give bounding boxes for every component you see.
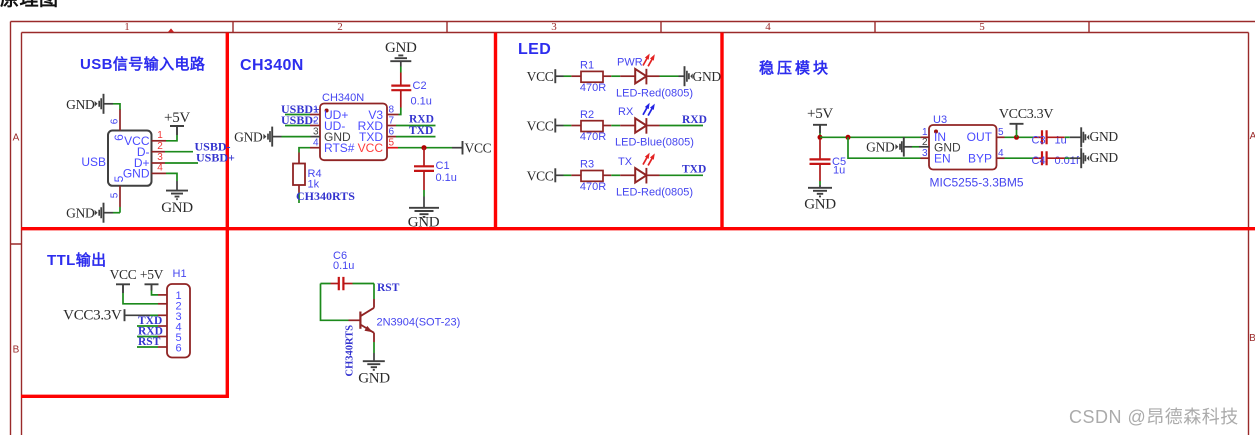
svg-text:GND: GND <box>66 206 95 221</box>
junction (C5/+5V) <box>818 135 823 140</box>
svg-text:CH340RTS: CH340RTS <box>345 325 356 377</box>
resistor R2 470R <box>580 109 611 143</box>
svg-text:5: 5 <box>110 192 121 198</box>
svg-text:TTL输出: TTL输出 <box>47 251 107 269</box>
svg-text:USBD-: USBD- <box>281 113 317 127</box>
svg-text:CH340N: CH340N <box>322 92 364 104</box>
wire: C6 right to RST node and collector <box>353 284 375 300</box>
svg-text:A: A <box>1250 131 1255 142</box>
svg-text:3: 3 <box>551 21 557 33</box>
wire: pin1 to +5V <box>166 135 177 141</box>
svg-text:2N3904(SOT-23): 2N3904(SOT-23) <box>377 317 461 329</box>
pin 4 RTS# <box>310 138 320 149</box>
resistor R4 <box>293 153 322 193</box>
svg-text:B: B <box>13 345 20 356</box>
svg-text:470R: 470R <box>580 131 606 143</box>
svg-text:BYP: BYP <box>968 151 992 165</box>
svg-text:CSDN @昂德森科技: CSDN @昂德森科技 <box>1069 407 1239 427</box>
ground symbol (below C1) <box>408 208 440 231</box>
svg-text:RST: RST <box>138 336 161 348</box>
svg-text:VCC: VCC <box>465 140 492 155</box>
wire: top GND flag to USB pin 6 <box>113 104 120 110</box>
H1 pin 6 <box>158 343 182 355</box>
ground symbol (below C5) <box>804 188 836 213</box>
svg-text:0.1u: 0.1u <box>333 260 354 272</box>
svg-text:GND: GND <box>358 371 390 387</box>
net label TXD <box>409 125 433 137</box>
regulator U3 MIC5255-3.3BM5 <box>929 114 1024 190</box>
LED2 LED-Blue(0805) RX <box>615 103 694 149</box>
svg-text:GND: GND <box>234 129 263 144</box>
pin 7 RXD <box>387 116 396 127</box>
USB pin 6 (top stub) <box>110 110 126 141</box>
net label USBD+ <box>196 151 235 165</box>
ground flag GND (left of CH340N) <box>234 127 281 147</box>
wire: TXD net stub to pin 4 <box>137 325 158 327</box>
svg-text:0.1u: 0.1u <box>436 172 457 184</box>
LED3 LED-Red(0805) TX <box>616 153 693 199</box>
svg-text:0.01f: 0.01f <box>1055 155 1080 167</box>
wire: +5V to H1 pin 1 <box>152 291 159 295</box>
svg-text:CH340N: CH340N <box>240 57 304 74</box>
svg-text:VCC: VCC <box>110 267 137 282</box>
svg-text:470R: 470R <box>580 181 606 193</box>
power symbol +5V <box>807 106 833 133</box>
svg-text:PWR: PWR <box>617 57 643 69</box>
net label USBD- <box>281 113 317 127</box>
svg-text:RXD: RXD <box>682 114 707 126</box>
capacitor C3 1u <box>1032 130 1067 146</box>
wire: USBD- net into pin 2 <box>285 125 310 127</box>
H1 pin 4 <box>158 322 182 334</box>
power flag VCC (TTL) <box>110 267 137 293</box>
capacitor C4 0.01f <box>1032 151 1080 167</box>
wire: pin3 net stub <box>165 162 198 164</box>
capacitor C1 0.1u <box>414 148 457 190</box>
capacitor C6 0.1u <box>331 250 355 290</box>
wire: VCC to R1 <box>564 75 582 77</box>
svg-text:VCC: VCC <box>527 168 554 183</box>
wire: C3 to ground flag <box>1047 136 1081 138</box>
net label USBD- <box>195 139 231 153</box>
ground symbol (below Q1) <box>358 361 390 386</box>
svg-text:RTS#: RTS# <box>324 141 355 155</box>
svg-text:TX: TX <box>618 156 633 168</box>
power symbol VCC3.3V <box>999 107 1053 137</box>
wire: R4 to net label <box>298 193 300 204</box>
wire: VCC to H1 pin 2 <box>123 293 158 304</box>
power flag VCC (row 2) <box>527 119 564 134</box>
wire: OUT to C3 <box>1005 136 1034 138</box>
wire: C1 to ground <box>423 190 425 208</box>
pin 1 UD+ <box>310 105 320 116</box>
wire: R2 to LED2 <box>611 125 635 127</box>
svg-text:1u: 1u <box>833 165 845 177</box>
svg-text:GND: GND <box>66 97 95 112</box>
svg-text:VCC: VCC <box>527 69 554 84</box>
svg-text:5: 5 <box>998 127 1004 138</box>
power flag VCC (row 1) <box>527 69 564 84</box>
pin 8 V3 <box>387 105 399 116</box>
wire: LED3 to TXD net <box>660 174 704 176</box>
resistor R1 470R <box>580 60 611 94</box>
svg-text:LED: LED <box>518 41 551 58</box>
LED1 LED-Red(0805) PWR <box>616 54 693 100</box>
wire: +5V rail to U3 IN <box>820 136 921 138</box>
wire: pin 4 down to R4 <box>299 148 310 153</box>
svg-text:USB信号输入电路: USB信号输入电路 <box>80 55 206 73</box>
H1 pin 1 <box>158 290 182 302</box>
svg-text:C1: C1 <box>436 160 450 172</box>
USB pin 1 VCC <box>152 130 166 141</box>
U3 pin 2 GND <box>919 137 929 148</box>
svg-text:1: 1 <box>124 21 130 33</box>
wire: RXD net stub <box>396 125 436 127</box>
wire: LED1 to ground flag <box>660 75 686 77</box>
net label RXD <box>409 114 434 126</box>
net label USBD+ <box>281 102 320 116</box>
power flag VCC3.3V (TTL) <box>63 307 150 323</box>
wire: +5V to junction <box>819 133 821 137</box>
net label RST <box>377 282 400 294</box>
U3 pin 3 EN <box>921 148 930 159</box>
wire: RXD net stub to pin 5 <box>137 336 158 338</box>
svg-text:+5V: +5V <box>140 267 164 282</box>
svg-text:GND: GND <box>1090 150 1119 165</box>
svg-text:5: 5 <box>979 21 985 33</box>
junction on VCC rail <box>421 145 426 150</box>
svg-text:R1: R1 <box>580 60 594 72</box>
wire: C5 to ground <box>819 181 821 188</box>
svg-text:GND: GND <box>866 139 895 154</box>
svg-text:MIC5255-3.3BM5: MIC5255-3.3BM5 <box>930 176 1024 190</box>
svg-text:OUT: OUT <box>967 130 993 144</box>
net label RXD <box>682 114 707 126</box>
svg-text:6: 6 <box>110 118 121 124</box>
pin 5 VCC <box>387 138 398 149</box>
svg-text:GND: GND <box>385 40 417 56</box>
wire: VCC to R2 <box>564 125 582 127</box>
svg-text:GND: GND <box>1090 129 1119 144</box>
USB pin 3 D+ <box>152 152 165 163</box>
net label RXD (TTL) <box>138 326 163 338</box>
svg-text:LED-Red(0805): LED-Red(0805) <box>616 186 693 198</box>
svg-text:TXD: TXD <box>409 125 433 137</box>
wire: bottom GND flag to USB pin 5 <box>113 212 120 214</box>
svg-text:2: 2 <box>337 21 343 33</box>
svg-text:4: 4 <box>765 21 771 33</box>
wire: BYP to C4 <box>1005 157 1034 159</box>
svg-text:VCC: VCC <box>358 141 384 155</box>
power symbol +5V (TTL) <box>140 267 164 291</box>
svg-text:稳压模块: 稳压模块 <box>759 59 831 77</box>
ground flag GND (bottom-left of USB) <box>66 203 113 223</box>
svg-text:VCC: VCC <box>527 119 554 134</box>
svg-text:VCC3.3V: VCC3.3V <box>999 107 1053 122</box>
svg-text:USB: USB <box>81 155 106 169</box>
svg-text:1: 1 <box>157 130 163 141</box>
svg-text:+5V: +5V <box>807 106 833 122</box>
wire: VCC3.3V to H1 pin 3 <box>150 314 158 316</box>
svg-text:2: 2 <box>157 141 163 152</box>
capacitor C2 0.1u <box>391 73 432 108</box>
USB pin 2 D- <box>152 141 165 152</box>
wire: USBD+ net into pin 1 <box>285 114 310 116</box>
wire: C6 loop left side down to base <box>321 284 349 321</box>
net label CH340RTS (vertical) <box>345 325 356 377</box>
wire: C2 to pin 8 <box>399 108 401 115</box>
svg-text:R3: R3 <box>580 159 594 171</box>
pin 2 UD- <box>310 116 320 127</box>
svg-text:H1: H1 <box>173 268 187 280</box>
power symbol +5V <box>164 110 190 135</box>
power flag VCC (row 3) <box>527 168 564 183</box>
svg-text:CH340RTS: CH340RTS <box>296 189 355 203</box>
ground flag GND (U3 pin 2) <box>866 137 919 157</box>
net label TXD <box>682 164 706 176</box>
wire: pin2 net stub <box>165 151 193 153</box>
svg-text:USBD+: USBD+ <box>196 151 235 165</box>
svg-text:EN: EN <box>934 151 951 165</box>
U3 pin 5 OUT <box>997 127 1005 138</box>
op chip U? CH340N <box>320 92 387 160</box>
svg-text:4: 4 <box>998 148 1004 159</box>
wire: RST net stub to pin 6 <box>137 346 158 348</box>
svg-text:C4: C4 <box>1032 155 1046 167</box>
USB connector J1 <box>81 131 151 186</box>
wire: junction down to EN pin <box>848 137 921 158</box>
svg-text:GND: GND <box>161 200 193 216</box>
svg-text:6: 6 <box>175 343 181 355</box>
wire: emitter to ground <box>373 342 375 361</box>
svg-text:RST: RST <box>377 282 400 294</box>
svg-text:GND: GND <box>123 167 150 181</box>
svg-text:470R: 470R <box>580 82 606 94</box>
ground flag GND (top-left of USB) <box>66 94 113 114</box>
ground flag GND (row 1 right) <box>685 66 722 86</box>
ground symbol GND (top of C2, inverted earth) <box>385 40 417 67</box>
svg-text:A: A <box>13 133 20 144</box>
U3 pin 1 IN <box>921 127 930 138</box>
svg-text:R2: R2 <box>580 109 594 121</box>
svg-text:C3: C3 <box>1032 134 1046 146</box>
svg-text:RX: RX <box>618 106 634 118</box>
svg-text:GND: GND <box>804 197 836 213</box>
svg-text:1u: 1u <box>1055 134 1067 146</box>
wire: R1 to LED1 <box>611 75 635 77</box>
capacitor C5 1u <box>810 139 847 181</box>
wire: GND to C2 <box>400 67 402 73</box>
svg-text:5: 5 <box>112 175 126 182</box>
svg-text:0.1u: 0.1u <box>411 96 432 108</box>
junction (VCC3.3V) <box>1014 135 1019 140</box>
pin 6 TXD <box>387 127 396 138</box>
USB pin 4 GND <box>152 163 166 174</box>
H1 pin 3 <box>158 311 182 323</box>
USB pin 5 (bottom stub) <box>110 175 126 212</box>
svg-text:VCC3.3V: VCC3.3V <box>63 307 122 323</box>
pin 3 GND <box>282 127 321 138</box>
wire: VCC to R3 <box>564 174 582 176</box>
ground flag GND (C4 right) <box>1081 148 1118 168</box>
svg-text:3: 3 <box>157 152 163 163</box>
power flag VCC <box>452 140 492 155</box>
svg-text:B: B <box>1249 333 1255 344</box>
svg-text:+5V: +5V <box>164 110 190 126</box>
wire: C4 to ground flag <box>1047 157 1081 159</box>
wire: LED2 to RXD net <box>660 125 704 127</box>
wire: TXD net stub <box>396 136 436 138</box>
svg-text:GND: GND <box>693 69 722 84</box>
ground flag GND (C3 right) <box>1081 127 1118 147</box>
H1 pin 5 <box>158 332 182 344</box>
junction (EN branch) <box>846 135 851 140</box>
svg-text:4: 4 <box>157 163 163 174</box>
U3 pin 4 BYP <box>997 148 1005 159</box>
net label TXD (TTL) <box>138 315 162 327</box>
svg-text:6: 6 <box>112 134 126 141</box>
wire: pin5 VCC rail <box>398 147 452 149</box>
svg-text:GND: GND <box>408 215 440 231</box>
wire: R3 to LED3 <box>611 174 635 176</box>
net label RST (TTL) <box>138 336 161 348</box>
svg-text:LED-Blue(0805): LED-Blue(0805) <box>615 137 694 149</box>
header H1 <box>167 268 190 358</box>
svg-text:TXD: TXD <box>682 164 706 176</box>
ground symbol (USB pin4 earth) <box>161 191 193 216</box>
resistor R3 470R <box>580 159 611 193</box>
page heading 原理图 (cut off at top) <box>0 0 59 11</box>
H1 pin 2 <box>158 301 182 313</box>
net label CH340RTS <box>296 189 355 203</box>
svg-text:LED-Red(0805): LED-Red(0805) <box>616 87 693 99</box>
svg-text:C2: C2 <box>413 80 427 92</box>
transistor Q1 2N3904(SOT-23) <box>349 299 461 342</box>
wire: pin4 to ground <box>166 173 177 190</box>
